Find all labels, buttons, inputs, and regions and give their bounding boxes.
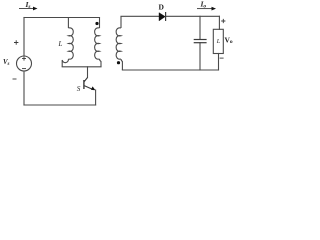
source Vs internal plus — [22, 57, 26, 61]
diode D triangle — [159, 13, 165, 21]
source Vs circle — [17, 56, 32, 71]
wire right vertical load top lead — [218, 16, 220, 29]
transformer primary winding coil — [95, 28, 100, 59]
svg-text:Vs: Vs — [3, 59, 10, 67]
capacitor C bottom plate — [194, 42, 207, 44]
polarity dot secondary — [117, 61, 120, 64]
polarity dot primary — [95, 22, 98, 25]
wire capacitor top lead — [199, 16, 201, 39]
switch S transistor symbol: collector diagonal — [84, 78, 88, 83]
transformer secondary winding coil — [116, 28, 121, 59]
transformer secondary winding bottom tail — [121, 59, 122, 70]
wire left vertical below Vs — [23, 71, 25, 105]
wire bottom rail primary side — [24, 104, 96, 106]
label minus (output) — [220, 57, 224, 59]
svg-text:S: S — [77, 85, 81, 93]
wire left vertical above Vs — [23, 18, 25, 57]
svg-text:Vo: Vo — [225, 35, 233, 45]
wire switch bottom lead — [95, 90, 97, 105]
capacitor C top plate — [194, 39, 207, 41]
wire top-right horizontal (secondary to diode) — [121, 15, 159, 17]
wire diode to output corner — [166, 15, 220, 17]
wire switch top stub — [87, 67, 89, 78]
wire load bottom lead — [218, 54, 220, 71]
switch S emitter diagonal — [84, 86, 94, 90]
wire primary bottom horizontal — [62, 66, 101, 68]
svg-text:L: L — [216, 39, 221, 45]
svg-text:Io: Io — [200, 0, 207, 10]
switch S base bar — [83, 80, 85, 89]
load box — [213, 29, 223, 53]
label minus (source, outside) — [13, 78, 17, 80]
source Vs internal minus — [22, 68, 26, 70]
transformer secondary winding top stub — [120, 16, 122, 28]
transformer primary winding bottom tail — [100, 59, 102, 67]
transformer primary winding top stub — [99, 18, 101, 29]
label plus (output) — [221, 19, 225, 23]
diode D cathode bar — [165, 12, 167, 21]
wire top-left horizontal (Vs to primary) — [24, 17, 100, 19]
switch S emitter arrowhead — [91, 86, 96, 90]
wire bottom rail secondary side — [122, 69, 218, 71]
inductor L coil — [68, 28, 73, 59]
inductor L (magnetizing) top stub — [67, 18, 69, 29]
svg-text:D: D — [159, 3, 165, 12]
arrow Is — [19, 7, 38, 11]
wire capacitor bottom lead — [199, 43, 201, 70]
svg-text:L: L — [58, 40, 63, 48]
arrow Io — [197, 7, 216, 11]
label plus (source, outside) — [14, 40, 18, 44]
inductor L bottom tail — [62, 59, 68, 67]
